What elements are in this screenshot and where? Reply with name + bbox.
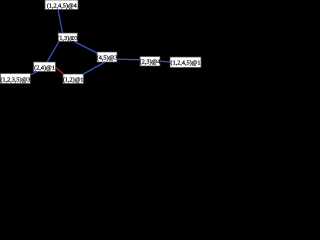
node L1 (1,2,4,5)@4 — [45, 0, 78, 10]
svg-text:(1,2,3,5)@3: (1,2,3,5)@3 — [0, 76, 30, 83]
svg-text:(1,3)@3: (1,3)@3 — [57, 35, 78, 42]
node L5 (1,2,4,5)@1 — [170, 57, 201, 68]
svg-text:(2,3)@4: (2,3)@4 — [140, 59, 161, 66]
wire edge L6-L8 — [30, 71, 38, 75]
node L3 (4,5)@3 — [97, 52, 118, 62]
node L8 (1,2,3,5)@3 — [0, 74, 30, 84]
node L6 (2,4)@1 — [34, 62, 56, 72]
svg-text:(1,2,4,5)@4: (1,2,4,5)@4 — [47, 3, 77, 10]
wire edge L4-L5 — [160, 60, 170, 63]
wire edge L7-L3 — [84, 62, 106, 74]
svg-text:(1,2,4,5)@1: (1,2,4,5)@1 — [171, 60, 201, 67]
wire edge L2-L3 — [74, 42, 97, 54]
node L4 (2,3)@4 — [140, 57, 161, 67]
wire edge L2-L6 — [47, 42, 59, 63]
svg-text:(1,2)@1: (1,2)@1 — [63, 76, 84, 83]
node L2 (1,3)@3 — [57, 33, 78, 42]
svg-text:(4,5)@3: (4,5)@3 — [97, 54, 118, 61]
wire edge L6-L7 red — [56, 68, 64, 75]
wire edge L3-L4 — [117, 58, 140, 61]
svg-text:(2,4)@1: (2,4)@1 — [34, 64, 55, 71]
wire edge L1-L2 — [58, 10, 63, 34]
node L7 (1,2)@1 — [63, 74, 84, 84]
